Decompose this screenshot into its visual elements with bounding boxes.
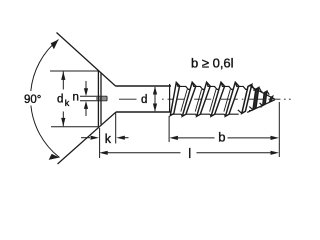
thread root thin diagonals in gaps bbox=[181, 89, 231, 111]
thread start vertical edge bbox=[169, 84, 171, 113]
90 degree angle arc (upper segment) bbox=[31, 40, 59, 92]
shank top edge bbox=[116, 85, 172, 87]
dk dimension line vertical (broken by label) bbox=[62, 72, 64, 90]
taper tooth back edges bbox=[238, 85, 269, 114]
taper root segments bottom bbox=[249, 107, 262, 111]
centerline axis dash-dot bbox=[119, 98, 291, 100]
shank bottom edge bbox=[116, 111, 171, 113]
taper root segments top bbox=[253, 90, 262, 91]
n dimension arrow down (above slot) bbox=[85, 81, 87, 89]
svg-text:k: k bbox=[105, 132, 112, 146]
b extension line left bbox=[168, 116, 170, 142]
arc arrowhead top bbox=[51, 40, 59, 50]
crest 3 bbox=[197, 82, 211, 116]
thread top crest outline (tooth descent + crest line + root) bbox=[176, 82, 247, 89]
tip taper bottom edge bbox=[247, 100, 275, 113]
k dimension arrow right (outside, pointing left) bbox=[124, 137, 129, 139]
svg-text:d: d bbox=[57, 94, 63, 106]
crest 1 bbox=[170, 82, 179, 115]
k dimension arrow left (outside, pointing right) bbox=[81, 137, 90, 139]
dk arrow down bbox=[61, 118, 65, 127]
svg-text:b: b bbox=[218, 130, 225, 145]
dk bottom extension line bbox=[51, 126, 98, 128]
k / l extension line (head face, down) bbox=[99, 128, 101, 158]
head face line 1 bbox=[97, 71, 99, 127]
d dimension line vertical with arrows bbox=[154, 87, 156, 111]
thread bottom crest outline segments bbox=[170, 113, 238, 115]
crest 2 bbox=[182, 82, 196, 116]
crest 4 bbox=[211, 82, 225, 116]
svg-text:n: n bbox=[73, 92, 79, 104]
crest 7 (taper) bbox=[253, 87, 259, 110]
dk top extension line bbox=[50, 70, 99, 72]
svg-text:90°: 90° bbox=[24, 94, 41, 106]
thread crest strips (white parallelograms) bbox=[170, 82, 267, 116]
slot bar outline (slot side view with extension lines) bbox=[80, 95, 107, 97]
thread bottom tooth left edges bbox=[181, 114, 225, 116]
svg-text:k: k bbox=[65, 98, 70, 108]
l dimension line with arrows bbox=[107, 152, 181, 154]
b extension line right bbox=[278, 102, 280, 157]
tip taper top edge bbox=[250, 86, 274, 99]
crest 5 bbox=[225, 82, 239, 116]
90 degree angle arc (lower segment) bbox=[31, 106, 60, 158]
svg-text:d: d bbox=[141, 94, 147, 106]
arc arrowhead bottom bbox=[49, 154, 60, 160]
k extension line right (cone-shank junction, down) bbox=[115, 113, 117, 144]
n dimension arrow up (below slot) bbox=[85, 108, 87, 116]
slot fill (hatched/grey) bbox=[96, 97, 107, 101]
head face line 2 bbox=[100, 73, 102, 124]
svg-text:b ≥ 0,6l: b ≥ 0,6l bbox=[191, 56, 234, 71]
dk arrow up bbox=[61, 71, 65, 80]
tip final small crest bbox=[269, 96, 273, 102]
construction line top (cone surface extension, 45deg) bbox=[57, 33, 116, 87]
construction line bottom (cone surface extension, 45deg) bbox=[58, 112, 117, 164]
b dimension line with arrows bbox=[178, 137, 215, 139]
crest 8 (taper) bbox=[263, 91, 267, 106]
crest 6 (taper) bbox=[242, 84, 252, 113]
svg-text:l: l bbox=[188, 146, 191, 161]
